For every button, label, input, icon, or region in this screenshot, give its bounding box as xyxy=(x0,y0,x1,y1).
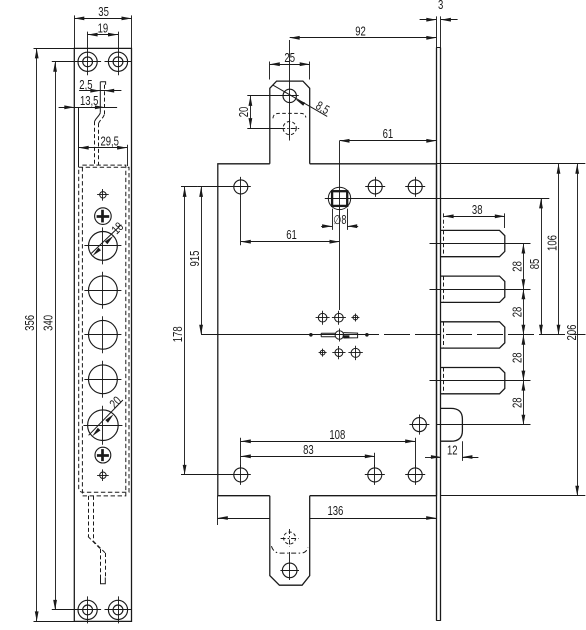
centerline dot right xyxy=(366,334,369,337)
svg-text:38: 38 xyxy=(472,203,483,217)
plate bolt-pin hole upper (bold cross) xyxy=(95,208,112,225)
deadbolt pin 3 xyxy=(441,322,505,348)
dim 61 left xyxy=(240,196,242,245)
cylinder fixing screw circle top-right xyxy=(353,315,358,320)
main horizontal centerline xyxy=(201,334,379,336)
case mounting hole bottom-middle xyxy=(368,468,382,482)
faceplate bottom screw hole right xyxy=(108,600,127,619)
dim 29.5 case width xyxy=(127,145,129,166)
svg-text:61: 61 xyxy=(286,228,297,242)
svg-text:∅8: ∅8 xyxy=(333,213,346,227)
deadbolt pin 2 xyxy=(441,276,505,302)
plate bolt hole 2 xyxy=(89,276,118,305)
svg-text:106: 106 xyxy=(545,235,559,251)
bottom tab centerline xyxy=(289,552,291,580)
plate small hole upper xyxy=(100,192,106,198)
svg-text:61: 61 xyxy=(383,127,394,141)
faceplate front view outline xyxy=(74,48,131,621)
dim 108 xyxy=(240,438,242,468)
svg-text:35: 35 xyxy=(98,5,109,19)
svg-text:83: 83 xyxy=(303,443,314,457)
leader dia 8.5 xyxy=(273,85,327,116)
svg-text:356: 356 xyxy=(23,315,37,331)
dim 20 tab holes xyxy=(247,95,283,97)
case mounting hole bottom-right xyxy=(408,468,422,482)
dim 206 xyxy=(441,495,585,497)
case mounting hole top-right xyxy=(408,180,422,194)
upper slider slot solid edge xyxy=(100,82,105,113)
top tab centerline xyxy=(289,40,291,141)
svg-text:29,5: 29,5 xyxy=(100,134,119,148)
svg-text:85: 85 xyxy=(528,259,542,270)
svg-text:3: 3 xyxy=(438,0,443,12)
dim 3 plate thickness xyxy=(436,16,438,47)
svg-text:25: 25 xyxy=(284,51,295,65)
lower slider slot end cap xyxy=(101,577,106,584)
svg-text:28: 28 xyxy=(510,352,524,363)
dim 92 xyxy=(290,37,437,39)
dim 25 tab width xyxy=(269,62,271,80)
case mounting hole top-middle xyxy=(368,180,382,194)
svg-text:92: 92 xyxy=(355,25,366,39)
dim 136 xyxy=(217,496,219,525)
key lever profile xyxy=(321,333,335,337)
svg-text:20: 20 xyxy=(237,107,251,118)
svg-text:340: 340 xyxy=(41,315,55,331)
deadbolt pin 1 xyxy=(441,230,505,256)
case mounting hole top-left xyxy=(234,180,248,194)
dim 35 width xyxy=(74,15,76,48)
dim 356 overall height xyxy=(34,48,75,50)
cylinder fixing screw circle bottom-left xyxy=(320,350,325,355)
faceplate top screw hole left xyxy=(78,52,97,71)
dim chain 28 x4 xyxy=(523,244,525,425)
svg-text:12: 12 xyxy=(447,444,458,458)
case hole at latch level xyxy=(412,418,426,432)
top fixing tab outline xyxy=(270,81,310,164)
svg-text:206: 206 xyxy=(565,325,579,341)
svg-text:28: 28 xyxy=(510,261,524,272)
svg-text:19: 19 xyxy=(98,21,109,35)
bottom tab hidden hole xyxy=(284,532,296,544)
faceplate top screw hole right xyxy=(108,52,127,71)
cylinder fixing screw circle top-middle xyxy=(335,313,344,322)
top tab hole xyxy=(283,89,296,102)
lower slider slot hidden edge xyxy=(88,496,90,537)
dim 178 xyxy=(181,186,198,188)
hidden lock case outline (inner dashed rect) xyxy=(82,165,125,496)
svg-text:28: 28 xyxy=(510,307,524,318)
forend plate side view xyxy=(436,48,438,621)
plate bolt-pin hole lower (bold cross) xyxy=(95,447,111,463)
bottom tab hidden slot arc xyxy=(271,546,308,553)
case mounting hole bottom-left xyxy=(234,468,248,482)
dim 61 top xyxy=(340,140,437,142)
cylinder fixing screw circle top-left xyxy=(318,313,327,322)
square follower hole xyxy=(328,187,350,209)
dim 83 xyxy=(374,453,376,468)
centerline dot left xyxy=(310,334,313,337)
plate key hole 3 xyxy=(89,320,118,349)
cylinder fixing screw circle bottom-middle xyxy=(335,349,343,357)
svg-text:13,5: 13,5 xyxy=(80,94,99,108)
dim 85 xyxy=(541,198,543,334)
faceplate bottom screw hole left xyxy=(78,600,97,619)
svg-text:136: 136 xyxy=(327,504,343,518)
follower horizontal centerline xyxy=(325,198,550,200)
top tab hidden hole xyxy=(283,122,296,135)
dim 12 latch protrusion xyxy=(462,441,464,461)
leader dia 18 xyxy=(91,225,121,254)
latch centerline extension xyxy=(436,424,530,426)
deadbolt pin 4 xyxy=(441,368,505,394)
lock case body outline xyxy=(218,164,270,496)
dim 19 hole spacing xyxy=(87,32,89,49)
top tab hidden slot arc xyxy=(273,113,306,118)
cylinder fixing screw circle bottom-right xyxy=(351,348,360,357)
dim dia 8 follower xyxy=(332,209,334,230)
plate small hole lower xyxy=(100,472,106,478)
extension line inner flange xyxy=(78,107,80,167)
bottom tab hole xyxy=(282,563,297,578)
hidden lock case outline (outer dashed rect) xyxy=(79,167,129,492)
plate bolt hole 1 (dia 18) xyxy=(89,232,118,261)
svg-text:915: 915 xyxy=(188,251,202,267)
leader dia 20 xyxy=(89,400,123,435)
dim 340 hole spacing vertical xyxy=(52,61,78,63)
upper slider slot hidden edge xyxy=(104,85,106,115)
svg-text:178: 178 xyxy=(171,326,185,342)
bottom fixing tab outline xyxy=(270,496,310,586)
dim 2.5 slot width xyxy=(79,90,121,92)
svg-text:28: 28 xyxy=(510,397,524,408)
dim 38 bolt length xyxy=(443,213,445,228)
latch bolt xyxy=(441,408,463,441)
dim 13.5 slot offset xyxy=(59,107,118,109)
dim 106 xyxy=(436,163,585,165)
plate bolt hole 4 xyxy=(89,365,118,394)
follower vertical centerline xyxy=(339,141,341,310)
svg-text:2,5: 2,5 xyxy=(79,78,92,92)
dim 91.5 xyxy=(198,186,234,188)
svg-text:108: 108 xyxy=(329,428,345,442)
plate latch hole (dia 20) xyxy=(88,410,119,441)
